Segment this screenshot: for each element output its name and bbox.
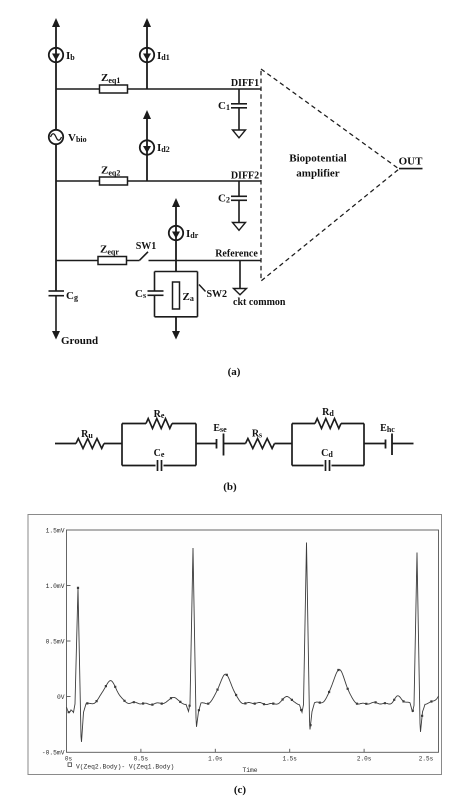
capacitor Ce bbox=[158, 460, 162, 471]
wire to ckt common bbox=[239, 261, 241, 289]
wire left rail bbox=[55, 21, 57, 291]
svg-text:0V: 0V bbox=[57, 694, 65, 701]
svg-text:Ce: Ce bbox=[154, 448, 165, 459]
capacitor C1 bbox=[231, 89, 247, 130]
wire row 2 (DIFF2) bbox=[56, 180, 261, 182]
svg-text:Ehc: Ehc bbox=[380, 423, 395, 434]
svg-text:1.5s: 1.5s bbox=[282, 756, 297, 763]
parallel box Rd/Cd bbox=[292, 424, 364, 466]
wire bbox=[224, 443, 246, 445]
resistor Zeq1 bbox=[100, 85, 128, 93]
battery Ese bbox=[217, 434, 224, 456]
plot outer border bbox=[28, 515, 442, 775]
resistor Zeqr bbox=[98, 257, 127, 265]
resistor Rs bbox=[246, 439, 275, 449]
current source Idr bbox=[169, 198, 183, 272]
svg-text:1.5mV: 1.5mV bbox=[46, 527, 65, 534]
ground ckt common bbox=[234, 289, 247, 295]
svg-text:(c): (c) bbox=[234, 784, 247, 796]
wire OUT bbox=[399, 168, 423, 170]
svg-text:Ese: Ese bbox=[213, 423, 227, 434]
svg-text:ckt common: ckt common bbox=[233, 297, 286, 308]
svg-text:Ground: Ground bbox=[61, 335, 98, 347]
capacitor Cs bbox=[148, 291, 164, 295]
ground ckt-common under C2 bbox=[233, 223, 246, 231]
capacitor C2 bbox=[231, 181, 247, 223]
current source Id2 bbox=[140, 110, 154, 181]
ECG trace markers bbox=[68, 587, 433, 726]
svg-text:Cd: Cd bbox=[321, 448, 333, 459]
svg-text:0.5mV: 0.5mV bbox=[46, 638, 65, 645]
svg-text:SW1: SW1 bbox=[136, 241, 157, 252]
plot frame bbox=[67, 530, 439, 752]
battery Ehc bbox=[386, 434, 393, 456]
svg-text:OUT: OUT bbox=[399, 156, 424, 168]
source Vbio bbox=[49, 130, 63, 144]
svg-text:0s: 0s bbox=[65, 756, 73, 763]
wire row 3 (Reference) bbox=[56, 260, 261, 262]
wire bbox=[364, 443, 386, 445]
current source Ib bbox=[49, 18, 63, 62]
resistor Ru bbox=[76, 439, 104, 449]
svg-text:Re: Re bbox=[154, 409, 165, 420]
capacitor Cg bbox=[49, 291, 65, 332]
legend marker and text bbox=[68, 763, 72, 767]
svg-text:Ru: Ru bbox=[81, 429, 93, 440]
svg-text:amplifier: amplifier bbox=[296, 168, 339, 180]
svg-text:(b): (b) bbox=[223, 481, 237, 493]
ground arrow bbox=[52, 331, 60, 340]
svg-text:1.0mV: 1.0mV bbox=[46, 583, 65, 590]
x-axis ticks and labels bbox=[141, 749, 364, 753]
svg-text:DIFF1: DIFF1 bbox=[231, 78, 259, 89]
svg-text:0.5s: 0.5s bbox=[134, 756, 149, 763]
wire below box with arrow bbox=[172, 317, 180, 340]
svg-text:2.0s: 2.0s bbox=[357, 756, 372, 763]
wire right stub bbox=[392, 443, 414, 445]
svg-text:Rd: Rd bbox=[322, 407, 334, 418]
svg-text:Rs: Rs bbox=[252, 429, 262, 440]
resistor Rd bbox=[315, 419, 341, 429]
svg-text:DIFF2: DIFF2 bbox=[231, 171, 259, 182]
ECG trace V(Zeq2.Body)-V(Zeq1.Body) bbox=[67, 543, 439, 742]
svg-text:2.5s: 2.5s bbox=[419, 756, 434, 763]
svg-text:V(Zeq2.Body)- V(Zeq1.Body): V(Zeq2.Body)- V(Zeq1.Body) bbox=[76, 763, 174, 770]
ground ckt-common under C1 bbox=[233, 130, 246, 138]
svg-text:SW2: SW2 bbox=[207, 289, 228, 300]
svg-text:1.0s: 1.0s bbox=[208, 756, 223, 763]
svg-text:Reference: Reference bbox=[215, 249, 258, 260]
current source Id1 bbox=[140, 18, 154, 89]
resistor Zeq2 bbox=[100, 177, 128, 185]
parallel box Re/Ce bbox=[122, 424, 196, 466]
svg-text:Biopotential: Biopotential bbox=[289, 153, 346, 165]
wire bbox=[104, 443, 122, 445]
wire bbox=[196, 443, 217, 445]
wire b main left stub bbox=[55, 443, 76, 445]
svg-text:(a): (a) bbox=[228, 366, 241, 378]
op-amp triangle Biopotential amplifier (dashed) bbox=[261, 69, 399, 281]
box around Cs and Za bbox=[155, 272, 198, 317]
svg-text:Time: Time bbox=[242, 767, 257, 774]
impedance Za bbox=[173, 282, 180, 309]
wire bbox=[275, 443, 293, 445]
resistor Re bbox=[146, 419, 172, 429]
capacitor Cd bbox=[326, 460, 330, 471]
wire row 1 (DIFF1) bbox=[56, 88, 261, 90]
switch SW2 pointer bbox=[199, 285, 206, 292]
y-axis ticks and labels bbox=[67, 586, 71, 697]
svg-text:-0.5mV: -0.5mV bbox=[42, 749, 65, 756]
switch SW1 bbox=[140, 252, 149, 260]
